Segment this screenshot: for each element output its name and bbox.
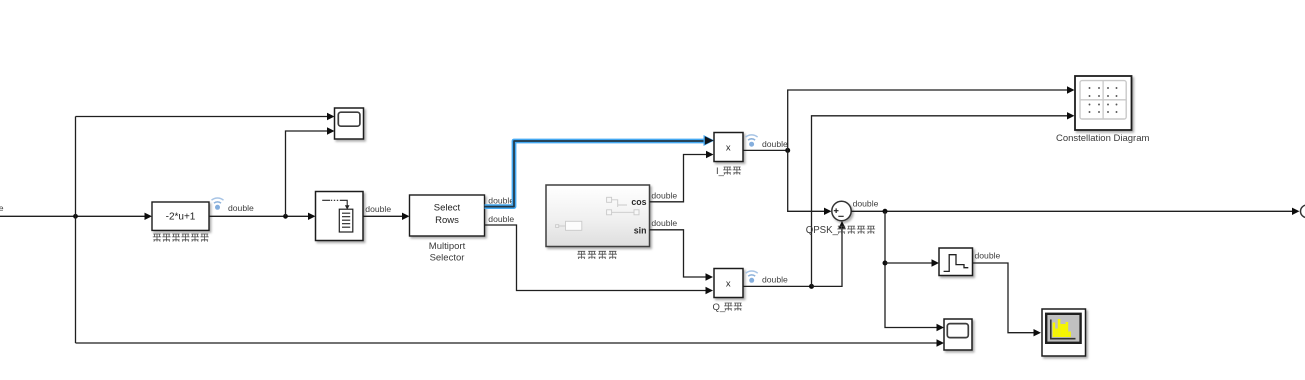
constellation diagram block [1075, 76, 1132, 130]
svg-text:x: x [726, 278, 731, 289]
svg-text:-2*u+1: -2*u+1 [166, 212, 196, 223]
svg-text:double: double [975, 250, 1001, 260]
label QPSK_调制信号 [806, 225, 875, 236]
subsystem 载波生成 (carrier generation) [546, 185, 650, 247]
wire: up to Constellation in1 [788, 90, 1068, 150]
quantizer-style block (staircase icon) [939, 248, 973, 276]
buffer block [316, 192, 364, 241]
wire: Q product out to junction [743, 285, 812, 287]
wire: I product out to junction [743, 149, 788, 151]
label I_载波 [716, 166, 741, 177]
block -2*u+1 (双极性不归零) [152, 202, 209, 230]
svg-text:Constellation Diagram: Constellation Diagram [1056, 133, 1150, 144]
block Multiport Selector (Select Rows) [410, 195, 485, 236]
svg-text:double: double [853, 198, 879, 208]
arrowhead into NRZ block [145, 213, 153, 220]
wire: buffer to Multiport Selector [363, 215, 403, 217]
product block Q_载波 [714, 269, 743, 298]
svg-text:cos: cos [631, 197, 646, 207]
wire: right then up into Sum bottom input [812, 228, 843, 287]
wire: NRZ to Buffer [209, 215, 309, 217]
wire: to Scope input 2 [286, 131, 329, 216]
signal logging badge after Q product [746, 271, 758, 283]
scope1 (bottom) [944, 319, 972, 350]
spectrum analyzer block [1042, 309, 1086, 356]
svg-text:double: double [488, 214, 514, 224]
label 双极性不归零 [153, 234, 209, 242]
svg-text:double: double [228, 203, 254, 213]
svg-text:double: double [651, 218, 677, 228]
wire: quantizer to spectrum analyzer [973, 263, 1035, 333]
svg-text:Q_: Q_ [713, 302, 726, 313]
product block I_载波 [714, 133, 743, 162]
sum block QPSK_调制信号 [832, 201, 851, 220]
svg-text:Rows: Rows [435, 215, 459, 226]
signal logging badge after I product [746, 135, 758, 147]
svg-text:QPSK_: QPSK_ [806, 225, 839, 236]
wire: sum out to output port (right edge) [851, 210, 1292, 212]
label Q_载波 [713, 302, 743, 313]
node: Q out junction [809, 284, 814, 289]
signal logging badge after NRZ [212, 198, 224, 210]
svg-text:x: x [726, 142, 731, 153]
svg-text:I_: I_ [716, 166, 725, 177]
svg-text:double: double [365, 204, 391, 214]
svg-text:double: double [488, 195, 514, 205]
svg-text:sin: sin [634, 226, 647, 236]
node: junction to quantizer [883, 261, 888, 266]
wire: to Scope input 1 [76, 116, 329, 118]
label 载波生成 [577, 251, 617, 259]
svg-text:Select: Select [434, 203, 461, 214]
wire: cos to I product in2 [650, 155, 707, 202]
svg-text:Multiport: Multiport [429, 241, 466, 252]
node: I out junction [785, 148, 790, 153]
wire: sin to Q product in1 [650, 230, 707, 277]
wire: Selector out2 to Q product in2 [485, 225, 707, 291]
wire: main input from left edge [0, 215, 146, 217]
svg-text:double: double [651, 190, 677, 200]
node: junction on sum output [883, 209, 888, 214]
wire: down to Sum left input [788, 150, 825, 211]
scope (top left) [335, 108, 364, 139]
wire: junction to quantizer input [885, 262, 932, 264]
wire: left vertical branch [75, 117, 77, 344]
svg-text:double: double [0, 203, 4, 213]
svg-text:Selector: Selector [430, 252, 465, 263]
wire: junction down to scope1 in1 [885, 211, 937, 327]
svg-text:double: double [762, 139, 788, 149]
wire: long bottom feedback to Scope1 input 2 [76, 342, 938, 344]
svg-text:double: double [762, 274, 788, 284]
wire (selected, blue): Selector out1 to I product in1 [485, 135, 715, 207]
wire: up to Constellation in2 [812, 116, 1069, 287]
outport circle (clipped at right edge) [1301, 205, 1305, 218]
node: junction after NRZ [283, 214, 288, 219]
node: left junction [73, 214, 78, 219]
